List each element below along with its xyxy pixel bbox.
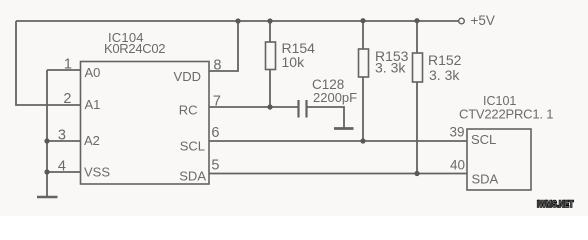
resistor R152 [413, 21, 423, 174]
svg-text:SDA: SDA [472, 172, 499, 187]
wire: +5V top rail [16, 20, 459, 22]
svg-text:A0: A0 [85, 65, 101, 80]
ground: C128 ground symbol [334, 127, 354, 130]
node: junction R152 bottom on SDA [414, 171, 419, 176]
svg-text:39: 39 [449, 125, 464, 140]
svg-text:7: 7 [213, 94, 221, 110]
wire: VSS stub [47, 171, 80, 173]
wire: A2 stub [47, 140, 80, 142]
wire: left drop from +5V rail to A1 [16, 21, 80, 105]
node: junction R152 top on +5V rail [414, 18, 419, 23]
svg-text:RC: RC [179, 103, 198, 118]
node: junction VSS on ground rail [44, 169, 49, 174]
capacitor C128 [299, 100, 345, 128]
resistor R153 [359, 21, 369, 142]
node: junction R154 top on +5V rail [267, 18, 272, 23]
svg-text:2: 2 [63, 91, 71, 107]
svg-text:1: 1 [64, 57, 72, 73]
svg-text:4: 4 [58, 159, 66, 175]
svg-text:K0R24C02: K0R24C02 [104, 41, 165, 56]
svg-text:VSS: VSS [84, 165, 110, 180]
svg-text:10k: 10k [282, 54, 306, 70]
svg-text:SDA: SDA [179, 169, 206, 184]
node: junction A2 on ground rail [44, 138, 49, 143]
svg-text:SCL: SCL [180, 139, 205, 154]
IC IC104 K0R24C02 body [81, 62, 210, 185]
node: junction R154 bottom on RC line [267, 104, 272, 109]
svg-text:3. 3k: 3. 3k [375, 60, 406, 76]
svg-text:IWMS.NET: IWMS.NET [537, 199, 574, 209]
IC IC101 CTV222PRC1.1 body [467, 129, 531, 190]
svg-text:2200pF: 2200pF [313, 90, 357, 105]
label: IWMS.NET watermark [537, 199, 574, 209]
ground: left ground symbol [37, 196, 58, 199]
resistor R154 [266, 21, 276, 107]
svg-text:R152: R152 [428, 52, 462, 68]
wire: A0 stub to ground rail [47, 69, 80, 71]
svg-text:A1: A1 [85, 97, 101, 112]
wire: SCL net from pin 6 to IC101 pin 39 [209, 140, 467, 142]
svg-text:CTV222PRC1. 1: CTV222PRC1. 1 [459, 107, 553, 122]
svg-text:3: 3 [58, 128, 66, 144]
svg-text:VDD: VDD [174, 69, 201, 84]
wire: SDA net from pin 5 to IC101 pin 40 [209, 173, 467, 175]
svg-text:A2: A2 [84, 133, 100, 148]
svg-text:SCL: SCL [471, 132, 496, 147]
node: junction R153 top on +5V rail [360, 18, 365, 23]
svg-text:+5V: +5V [471, 13, 495, 28]
svg-text:8: 8 [213, 58, 221, 74]
svg-text:6: 6 [211, 125, 219, 141]
wire: RC pin 7 to C128 [209, 106, 298, 108]
node: +5V terminal circle [459, 18, 465, 24]
wire: ground rail vertical [46, 70, 48, 197]
svg-text:40: 40 [450, 158, 465, 173]
wire: VDD pin 8 to +5V rail [209, 21, 238, 71]
svg-text:3. 3k: 3. 3k [429, 67, 460, 83]
svg-text:5: 5 [211, 158, 219, 174]
node: junction VDD riser on +5V rail [235, 18, 240, 23]
node: junction R153 bottom on SCL [360, 138, 365, 143]
